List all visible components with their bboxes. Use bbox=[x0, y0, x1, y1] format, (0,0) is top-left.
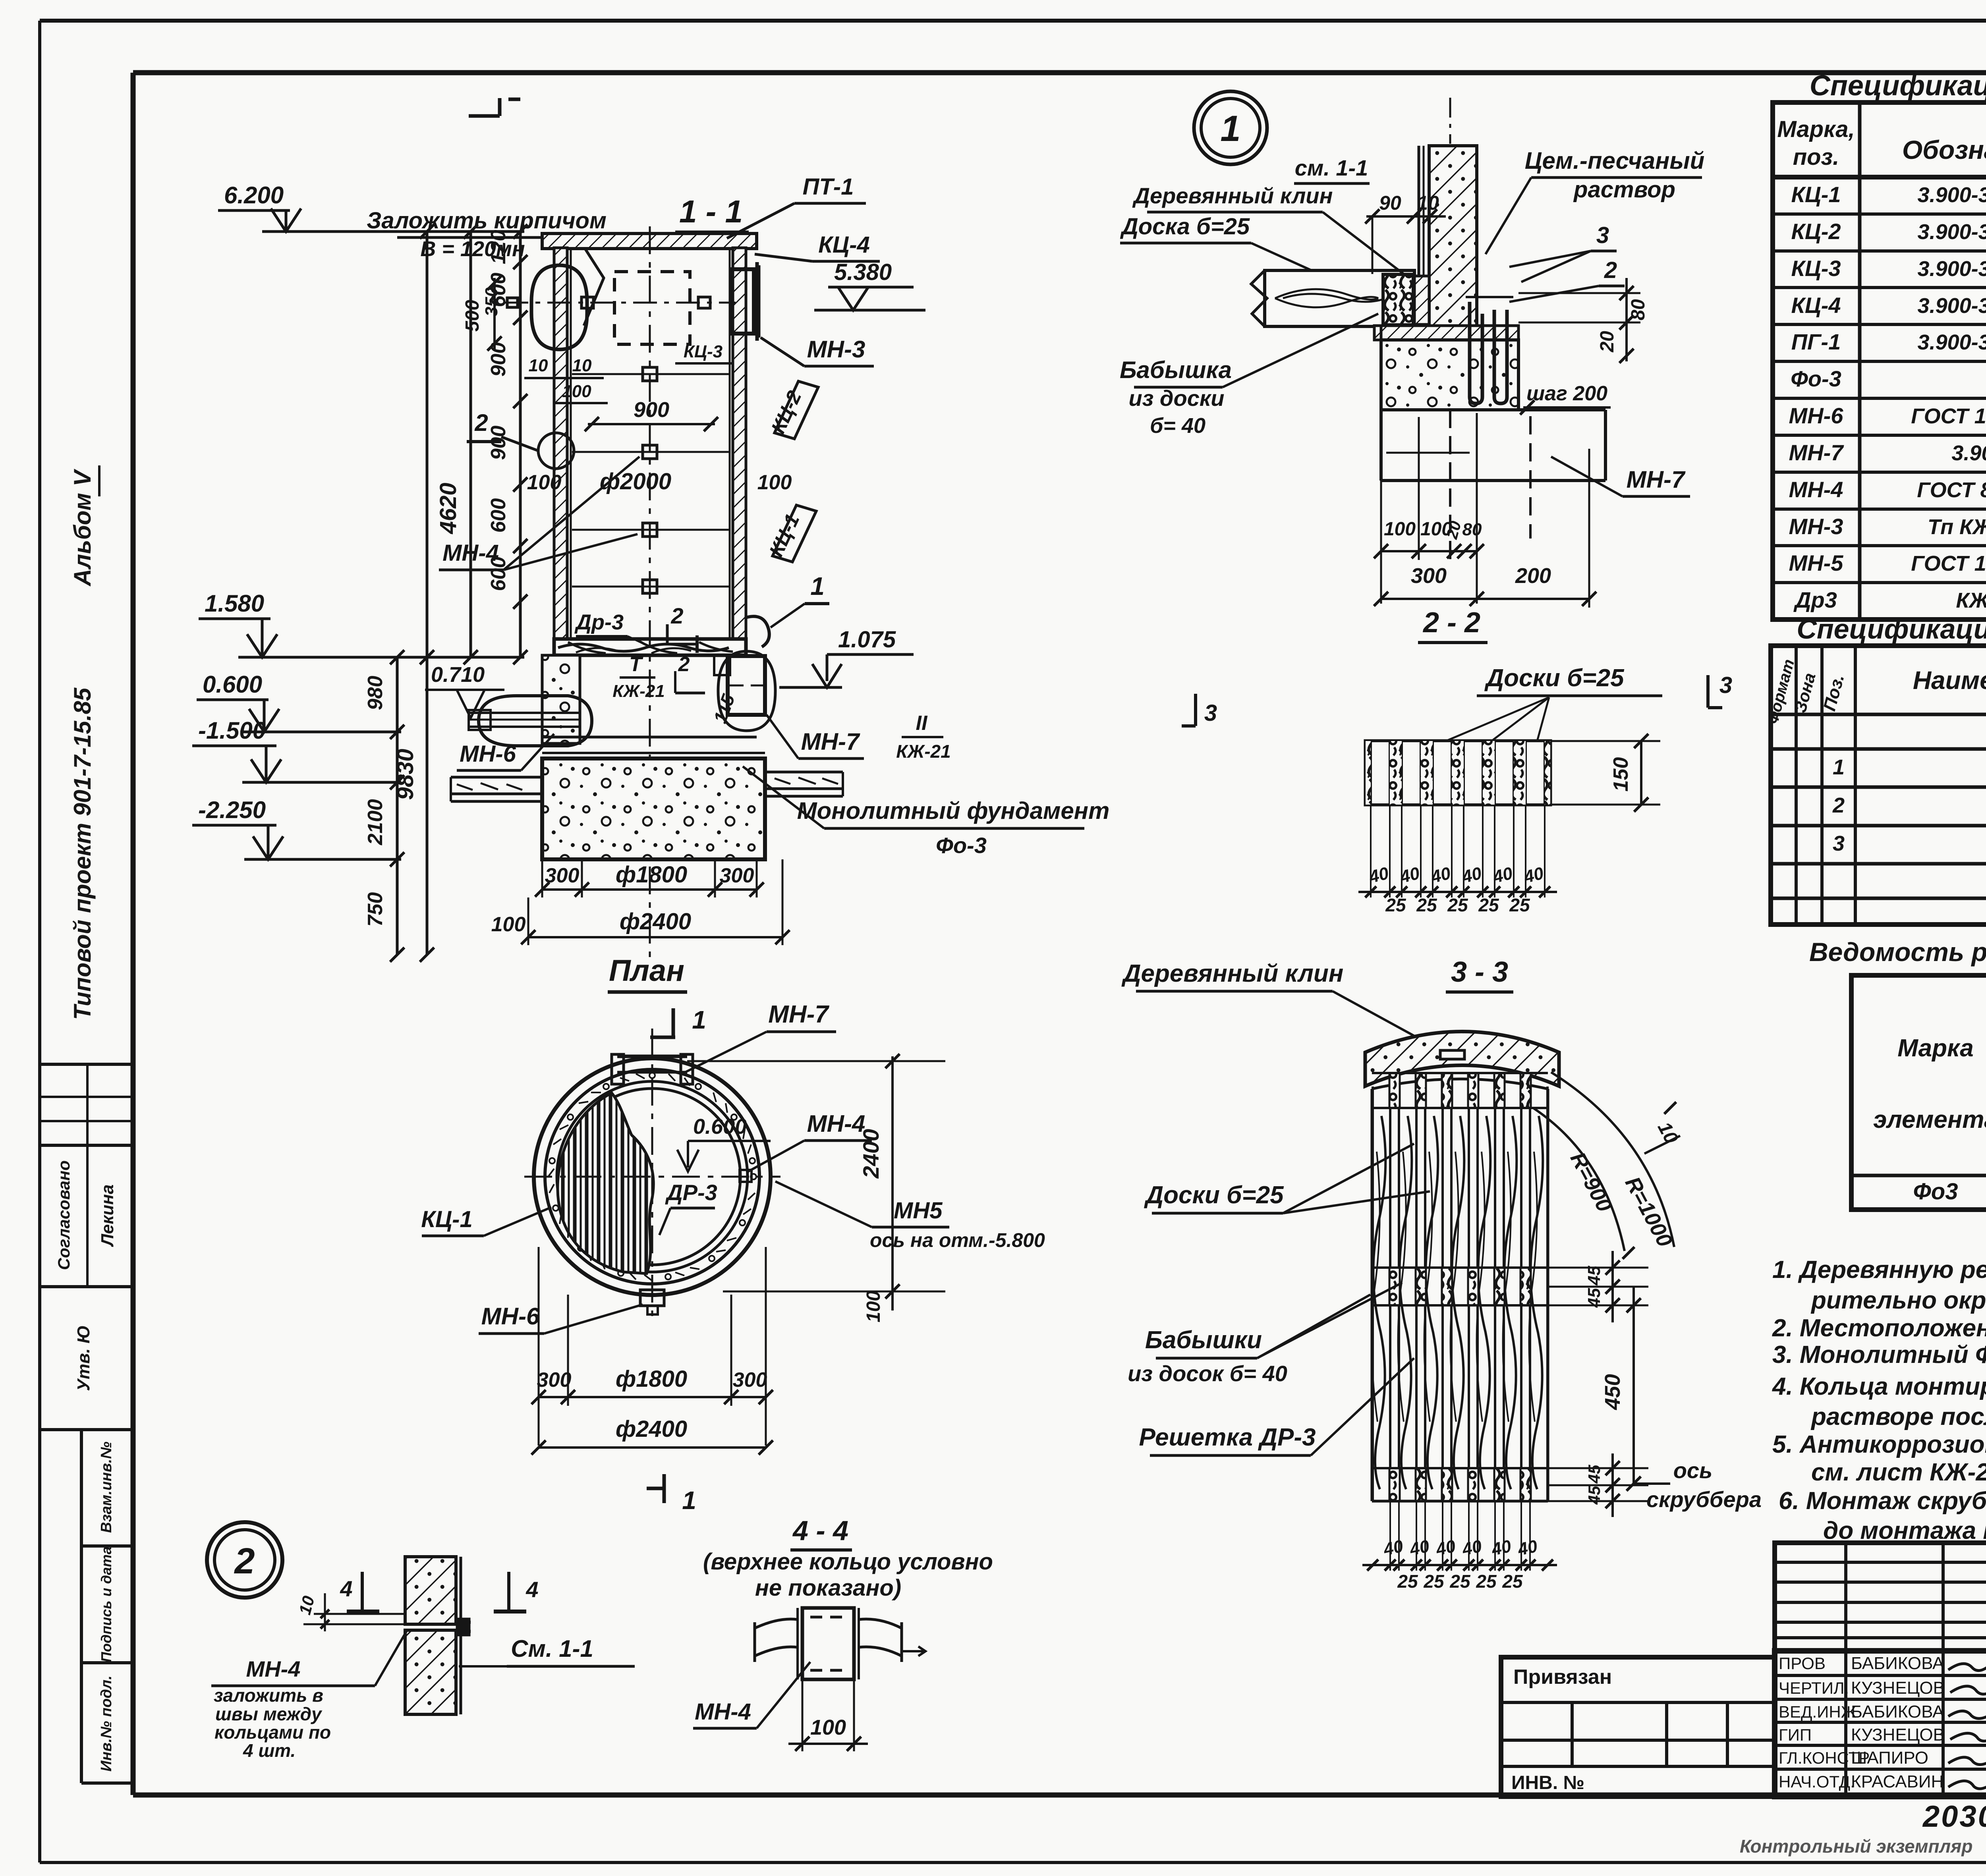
svg-text:40: 40 bbox=[1434, 1536, 1458, 1559]
svg-text:45: 45 bbox=[1584, 1266, 1604, 1285]
svg-text:3.900-3 вып.7: 3.900-3 вып.7 bbox=[1918, 257, 1986, 281]
svg-text:1: 1 bbox=[692, 1006, 706, 1034]
svg-text:80: 80 bbox=[1462, 520, 1482, 539]
label МН-3 right bbox=[761, 336, 874, 366]
svg-text:II: II bbox=[916, 712, 928, 735]
svg-text:2: 2 bbox=[234, 1541, 255, 1581]
svg-text:МН-4: МН-4 bbox=[442, 540, 499, 566]
detail circle 2 bbox=[207, 1522, 282, 1598]
svg-text:150: 150 bbox=[1609, 757, 1632, 792]
svg-text:1: 1 bbox=[810, 572, 825, 600]
svg-text:Фо3: Фо3 bbox=[1913, 1179, 1958, 1204]
lower chamber walls bbox=[542, 655, 757, 743]
svg-text:5.380: 5.380 bbox=[834, 259, 892, 285]
elevation 1.580 bbox=[199, 590, 524, 657]
wooden grate Др-3 band in section bbox=[554, 639, 746, 655]
dashed future-equipment outline bbox=[614, 272, 690, 344]
label Т/КЖ-21 inside chamber bbox=[612, 653, 705, 701]
svg-text:не показано): не показано) bbox=[755, 1575, 901, 1601]
svg-text:80: 80 bbox=[1628, 299, 1649, 320]
monolithic foundation block bbox=[542, 753, 765, 859]
svg-text:поз.: поз. bbox=[1793, 144, 1839, 170]
svg-text:500: 500 bbox=[462, 300, 483, 332]
label Деревянный клин (3-3) bbox=[1121, 960, 1446, 1053]
svg-text:-1.500: -1.500 bbox=[198, 717, 266, 744]
label Бабышки из досок (3-3) bbox=[1128, 1283, 1402, 1386]
svg-text:100: 100 bbox=[562, 382, 591, 401]
label Деревянный клин (узел 1) bbox=[1132, 183, 1412, 280]
svg-text:Фо-3: Фо-3 bbox=[936, 833, 987, 858]
svg-text:4: 4 bbox=[340, 1576, 352, 1601]
3-3 dims 45 45 bottom bbox=[1548, 1453, 1648, 1517]
general notes list bbox=[1772, 1256, 1986, 1544]
svg-text:КЦ-3: КЦ-3 bbox=[1791, 256, 1841, 281]
dimension chain 980 2100 750 bbox=[364, 650, 404, 962]
label см.1-1 bbox=[1294, 155, 1370, 183]
svg-text:300: 300 bbox=[537, 1368, 572, 1392]
plan grate hatched sector bbox=[558, 1093, 653, 1274]
elevation 6.200 bbox=[218, 182, 524, 232]
svg-text:6. Монтаж скруббера и засыпк: 6. Монтаж скруббера и засыпку колец наса… bbox=[1779, 1487, 1986, 1515]
svg-text:Согласовано: Согласовано bbox=[54, 1160, 73, 1270]
svg-text:КЖ-16: КЖ-16 bbox=[1956, 589, 1986, 612]
svg-text:МН-4: МН-4 bbox=[1789, 477, 1843, 502]
svg-text:Взам.инв.№: Взам.инв.№ bbox=[98, 1442, 115, 1533]
label Др-3 with section mark 2 bbox=[574, 603, 697, 653]
label Заложить кирпичом bbox=[367, 208, 607, 326]
left floor slab bbox=[451, 777, 542, 801]
label ПТ-1 bbox=[727, 174, 866, 238]
svg-text:100: 100 bbox=[1384, 519, 1416, 540]
svg-text:МН-5: МН-5 bbox=[1789, 550, 1844, 575]
svg-text:скруббера: скруббера bbox=[1646, 1487, 1762, 1512]
svg-text:рительно окрашенных эпокси: рительно окрашенных эпоксидной смолой ма… bbox=[1810, 1287, 1986, 1314]
узел 1 клин wedge bbox=[1414, 276, 1429, 324]
svg-text:Наименование: Наименование bbox=[1913, 666, 1986, 695]
svg-text:4620: 4620 bbox=[435, 483, 461, 534]
svg-text:3.900-3 вып.7: 3.900-3 вып.7 bbox=[1918, 220, 1986, 244]
svg-text:КУЗНЕЦОВ: КУЗНЕЦОВ bbox=[1851, 1678, 1945, 1698]
4-4 subtitle bbox=[703, 1549, 993, 1601]
svg-text:25: 25 bbox=[1449, 1571, 1471, 1592]
section 1-1 title bbox=[675, 194, 749, 232]
svg-text:25: 25 bbox=[1478, 895, 1499, 915]
svg-text:ВЕД.ИНЖ: ВЕД.ИНЖ bbox=[1779, 1702, 1857, 1721]
svg-text:1: 1 bbox=[1220, 108, 1240, 149]
svg-text:Обозначение: Обозначение bbox=[1902, 135, 1986, 164]
svg-text:КЦ-1: КЦ-1 bbox=[1791, 182, 1841, 207]
svg-text:25: 25 bbox=[1385, 895, 1406, 915]
svg-text:25: 25 bbox=[1509, 895, 1530, 915]
gland МН-7 in section bbox=[718, 651, 775, 731]
svg-text:40: 40 bbox=[1408, 1536, 1432, 1559]
svg-text:МН-4: МН-4 bbox=[695, 1699, 751, 1725]
svg-text:до монтажа плит покрытия: до монтажа плит покрытия здания. bbox=[1823, 1517, 1986, 1544]
svg-text:ШАПИРО: ШАПИРО bbox=[1851, 1748, 1928, 1768]
svg-text:Ведомость расхода стали на: Ведомость расхода стали на элемент,кГ bbox=[1809, 937, 1986, 967]
svg-text:3.900-3 вып.7: 3.900-3 вып.7 bbox=[1918, 183, 1986, 207]
svg-text:заложить в: заложить в bbox=[214, 1685, 323, 1706]
svg-text:200: 200 bbox=[1515, 564, 1551, 588]
svg-text:300: 300 bbox=[545, 864, 580, 887]
svg-text:900: 900 bbox=[634, 398, 669, 422]
svg-text:ось на отм.-5.800: ось на отм.-5.800 bbox=[870, 1229, 1045, 1251]
elevation 1.075 right bbox=[779, 627, 914, 687]
узел 1 U-gland МН-7 top bbox=[1466, 297, 1513, 403]
section 2-2 title bbox=[1418, 607, 1488, 643]
svg-text:100: 100 bbox=[757, 471, 792, 494]
svg-text:Бабышка: Бабышка bbox=[1120, 357, 1232, 383]
dim 900 interior bbox=[585, 398, 718, 431]
svg-text:ф1800: ф1800 bbox=[616, 1366, 687, 1392]
svg-text:БАБИКОВА: БАБИКОВА bbox=[1851, 1702, 1944, 1722]
svg-text:40: 40 bbox=[1381, 1536, 1405, 1559]
svg-text:Др3: Др3 bbox=[1793, 587, 1837, 612]
svg-text:Др-3: Др-3 bbox=[574, 610, 624, 634]
svg-text:МН-7: МН-7 bbox=[1627, 466, 1686, 493]
svg-text:45: 45 bbox=[1585, 1486, 1603, 1505]
svg-text:10: 10 bbox=[572, 356, 592, 375]
svg-text:ПТ-1: ПТ-1 bbox=[803, 174, 854, 200]
detail 2 label См.1-1 bbox=[459, 1635, 635, 1666]
svg-text:МН-6: МН-6 bbox=[1789, 403, 1844, 428]
svg-text:(верхнее кольцо условно: (верхнее кольцо условно bbox=[703, 1549, 993, 1575]
svg-text:3: 3 bbox=[1204, 700, 1217, 726]
МН-4 fixing marks on axis bbox=[572, 367, 729, 593]
svg-text:2: 2 bbox=[678, 653, 690, 676]
elevation -2.250 bbox=[192, 797, 401, 859]
callout parallelogram КЦ-2 bbox=[767, 381, 818, 439]
right floor slab bbox=[765, 772, 843, 796]
plan centerlines bbox=[524, 1029, 780, 1322]
svg-text:Спецификация элементов скру: Спецификация элементов скруббера bbox=[1810, 70, 1986, 102]
svg-text:2 - 2: 2 - 2 bbox=[1422, 607, 1480, 639]
label Доски б=25 (2-2) bbox=[1446, 664, 1662, 741]
svg-text:25: 25 bbox=[1397, 1571, 1418, 1592]
svg-text:1. Деревянную решетку изгота: 1. Деревянную решетку изготавливать из с… bbox=[1772, 1256, 1986, 1283]
svg-text:0.600: 0.600 bbox=[693, 1115, 747, 1139]
foundation dims 300 ф1800 300 bbox=[535, 859, 764, 897]
svg-text:40: 40 bbox=[1489, 1536, 1513, 1559]
svg-text:4 - 4: 4 - 4 bbox=[792, 1515, 848, 1546]
faint control note bbox=[1740, 1836, 1972, 1857]
svg-text:4: 4 bbox=[525, 1577, 538, 1602]
узел 1 wall bbox=[1419, 98, 1477, 326]
МН-6 pipe oval left bbox=[469, 696, 592, 746]
label 1 ring joint right bbox=[746, 572, 829, 647]
svg-text:КЖ-21: КЖ-21 bbox=[612, 681, 665, 701]
svg-text:3 - 3: 3 - 3 bbox=[1451, 956, 1508, 988]
svg-text:25: 25 bbox=[1447, 895, 1468, 915]
svg-text:300: 300 bbox=[733, 1368, 767, 1392]
svg-text:кольцами по: кольцами по bbox=[214, 1722, 331, 1743]
svg-text:120: 120 bbox=[487, 230, 510, 264]
label МН-6 bbox=[457, 734, 554, 770]
svg-text:2: 2 bbox=[1604, 257, 1617, 283]
svg-text:ЧЕРТИЛ.: ЧЕРТИЛ. bbox=[1779, 1679, 1849, 1697]
label Доска б=25 (узел 1) bbox=[1120, 214, 1311, 270]
2-2 dim 150 bbox=[1550, 734, 1660, 812]
scrubber right wall bbox=[730, 248, 746, 639]
svg-text:Марка,: Марка, bbox=[1777, 116, 1855, 142]
svg-text:см. 1-1: см. 1-1 bbox=[1295, 155, 1368, 180]
label МН-7 below right bbox=[767, 715, 864, 759]
svg-text:Фо-3: Фо-3 bbox=[1791, 366, 1841, 391]
svg-text:Альбом V: Альбом V bbox=[69, 468, 96, 587]
elevation -1.500 bbox=[192, 717, 401, 782]
label КЦ-4 bbox=[755, 232, 880, 261]
svg-text:90: 90 bbox=[1379, 192, 1401, 214]
svg-text:ДР-3: ДР-3 bbox=[665, 1180, 717, 1205]
document number 20307-05 bbox=[1922, 1800, 1986, 1834]
svg-text:10: 10 bbox=[529, 356, 548, 375]
svg-text:МН-6: МН-6 bbox=[460, 741, 516, 767]
3-3 клин wedge small bbox=[1440, 1050, 1464, 1059]
svg-text:ИНВ. №: ИНВ. № bbox=[1511, 1772, 1584, 1793]
узел 1 МН-7 plate band below foundation bbox=[1381, 410, 1605, 538]
svg-text:КЦ-2: КЦ-2 bbox=[1791, 219, 1841, 244]
svg-text:ф1800: ф1800 bbox=[616, 862, 687, 888]
elevation 5.380 bbox=[814, 259, 925, 310]
table: Ведомость расхода стали на элемент bbox=[1809, 937, 1986, 1210]
svg-text:Решетка ДР-3: Решетка ДР-3 bbox=[1139, 1424, 1316, 1451]
svg-text:25: 25 bbox=[1476, 1571, 1497, 1592]
svg-text:2400: 2400 bbox=[858, 1129, 883, 1179]
plan label МН5 ось на отм -5.800 bbox=[775, 1181, 1045, 1251]
section 3 cut marks around 2-2 bbox=[1182, 672, 1732, 726]
detail 2 label МН-4 with note bbox=[211, 1630, 407, 1761]
section 4-4 title bbox=[790, 1515, 852, 1550]
4-4 ring plan segment bbox=[755, 1608, 925, 1679]
plan outer ring circles bbox=[534, 1058, 771, 1295]
table: Спецификация элементов скруббера bbox=[1773, 70, 1986, 620]
svg-text:МН-7: МН-7 bbox=[1789, 440, 1845, 465]
svg-text:40: 40 bbox=[1460, 1536, 1484, 1559]
svg-text:1.580: 1.580 bbox=[205, 590, 264, 617]
3-3 ось скруббера bbox=[1634, 1458, 1762, 1512]
svg-text:Бабышки: Бабышки bbox=[1145, 1326, 1262, 1354]
узел 1 dims 90 10 bbox=[1365, 192, 1446, 274]
svg-text:ГОСТ 10704-76: ГОСТ 10704-76 bbox=[1911, 552, 1986, 575]
plan elevation 0.600 bbox=[677, 1115, 771, 1172]
узел 1 axis below bbox=[1449, 410, 1451, 562]
узел 1 callout 2 bbox=[1509, 257, 1625, 302]
svg-text:Лекина: Лекина bbox=[98, 1185, 117, 1247]
svg-text:из досок б= 40: из досок б= 40 bbox=[1128, 1361, 1287, 1386]
3-3 бабышки rows bbox=[1372, 1073, 1548, 1501]
svg-text:см. лист КЖ-22.: см. лист КЖ-22. bbox=[1811, 1459, 1986, 1486]
svg-text:25: 25 bbox=[1502, 1571, 1523, 1592]
узел 1 dims 300 200 bbox=[1374, 449, 1596, 608]
4-4 dim 100 bbox=[788, 1679, 868, 1751]
elevation 0.710 left bbox=[425, 663, 504, 718]
svg-text:0.600: 0.600 bbox=[203, 671, 262, 698]
svg-text:20307- 05: 20307- 05 bbox=[1922, 1800, 1986, 1834]
svg-text:МН-6: МН-6 bbox=[481, 1303, 540, 1330]
svg-text:См. 1-1: См. 1-1 bbox=[511, 1635, 593, 1662]
svg-text:25: 25 bbox=[1416, 895, 1437, 915]
svg-text:КУЗНЕЦОВ: КУЗНЕЦОВ bbox=[1851, 1725, 1945, 1745]
section 3-3 title bbox=[1446, 956, 1513, 992]
svg-text:100: 100 bbox=[863, 1291, 884, 1322]
svg-text:6.200: 6.200 bbox=[224, 182, 284, 208]
svg-text:100: 100 bbox=[491, 913, 526, 936]
svg-text:40: 40 bbox=[1516, 1536, 1540, 1559]
4-4 label МН-4 bbox=[693, 1662, 810, 1728]
title block (штамп) bbox=[1501, 1543, 1986, 1797]
svg-text:Инв.№ подл.: Инв.№ подл. bbox=[98, 1675, 115, 1772]
label Монолитный фундамент Фо-3 bbox=[743, 766, 1109, 858]
svg-text:2: 2 bbox=[474, 409, 488, 436]
svg-text:750: 750 bbox=[364, 892, 387, 927]
table: Спецификация монолитного фундамента Фо3 bbox=[1764, 614, 1986, 924]
spec table 1 data rows bbox=[1789, 176, 1986, 616]
svg-text:20: 20 bbox=[1597, 331, 1618, 353]
svg-text:3.901-5: 3.901-5 bbox=[1951, 441, 1986, 465]
3-3 radius leaders R=900 R=1000 bbox=[1533, 1072, 1682, 1259]
svg-text:Т: Т bbox=[629, 653, 643, 676]
svg-text:МН-4: МН-4 bbox=[807, 1110, 865, 1137]
svg-text:ГОСТ 10704-76: ГОСТ 10704-76 bbox=[1911, 404, 1986, 428]
detail 2 dim 10 bbox=[295, 1593, 407, 1631]
svg-text:2. Местоположение скруббера: 2. Местоположение скруббера в плане см. … bbox=[1772, 1314, 1986, 1342]
svg-text:МН5: МН5 bbox=[894, 1198, 943, 1224]
svg-text:300: 300 bbox=[720, 864, 754, 887]
svg-text:45: 45 bbox=[1585, 1465, 1603, 1484]
svg-text:КЦ-4: КЦ-4 bbox=[1791, 293, 1841, 318]
svg-text:б= 40: б= 40 bbox=[1150, 414, 1206, 438]
svg-text:Заложить кирпичом: Заложить кирпичом bbox=[367, 208, 607, 234]
svg-text:КЦ-3: КЦ-3 bbox=[684, 342, 723, 361]
plan label МН-7 bbox=[685, 1001, 836, 1072]
plan label МН-6 label bbox=[479, 1303, 643, 1334]
svg-text:4 шт.: 4 шт. bbox=[243, 1740, 296, 1761]
svg-text:Спецификация монолитного ф: Спецификация монолитного фундамента Фо3 bbox=[1797, 614, 1986, 645]
label II/КЖ-21 right bbox=[896, 712, 950, 762]
foundation dim ф2400 and 100 bbox=[491, 859, 790, 945]
label МН-7 (узел 1) bbox=[1551, 457, 1690, 496]
svg-text:Доски б=25: Доски б=25 bbox=[1484, 664, 1625, 692]
svg-text:980: 980 bbox=[364, 676, 387, 710]
svg-text:4. Кольца монтировать на све: 4. Кольца монтировать на свежеуложенном … bbox=[1772, 1373, 1986, 1400]
svg-text:КЖ-21: КЖ-21 bbox=[896, 741, 950, 762]
svg-text:-2.250: -2.250 bbox=[198, 797, 266, 823]
svg-text:2: 2 bbox=[1832, 793, 1845, 817]
plan label КЦ-1 bbox=[421, 1206, 551, 1236]
svg-text:элемента: элемента bbox=[1873, 1106, 1986, 1133]
2-2 board band bbox=[1366, 741, 1550, 805]
callout parallelogram КЦ-1 lower bbox=[765, 505, 816, 562]
2-2 extension lines and dims 40/25 bbox=[1358, 805, 1557, 915]
svg-text:Типовой проект 901-7-15.85: Типовой проект 901-7-15.85 bbox=[69, 687, 96, 1020]
label Доски б=25 (3-3) bbox=[1144, 1144, 1430, 1213]
plan section cut 1 top bbox=[650, 1006, 706, 1037]
svg-text:НАЧ.ОТД.: НАЧ.ОТД. bbox=[1779, 1772, 1855, 1791]
svg-text:1.075: 1.075 bbox=[838, 627, 896, 652]
svg-text:Утв. Ю: Утв. Ю bbox=[74, 1325, 93, 1391]
svg-text:0.710: 0.710 bbox=[431, 663, 485, 687]
left margin stamp column bbox=[40, 465, 133, 1783]
svg-text:БАБИКОВА: БАБИКОВА bbox=[1851, 1654, 1944, 1673]
label КЦ-3 small bbox=[675, 342, 733, 363]
svg-text:МН-7: МН-7 bbox=[801, 728, 860, 755]
svg-text:МН-4: МН-4 bbox=[246, 1656, 301, 1681]
svg-text:ф2400: ф2400 bbox=[616, 1416, 687, 1442]
section circle 2 on left wall bbox=[467, 409, 574, 469]
nozzle squares bbox=[507, 297, 710, 308]
svg-text:Доски б=25: Доски б=25 bbox=[1144, 1181, 1284, 1209]
svg-text:Деревянный клин: Деревянный клин bbox=[1132, 183, 1333, 208]
svg-text:Деревянный клин: Деревянный клин bbox=[1121, 960, 1344, 987]
svg-text:100: 100 bbox=[810, 1716, 846, 1739]
svg-text:3: 3 bbox=[1596, 222, 1609, 248]
узел 1 dim 80 20 right bbox=[1518, 278, 1649, 363]
svg-text:раствор: раствор bbox=[1573, 177, 1675, 203]
svg-text:Монолитный фундамент: Монолитный фундамент bbox=[797, 797, 1110, 824]
dimension chain 4620 bbox=[435, 224, 478, 664]
plan МН-7 plate top bbox=[612, 1054, 693, 1084]
узел 1 бабышка block bbox=[1383, 274, 1413, 325]
svg-text:Тп КЖИ-МН: Тп КЖИ-МН bbox=[1928, 515, 1986, 539]
gland oval top left bbox=[531, 265, 587, 349]
label Решетка ДР-3 bbox=[1139, 1358, 1414, 1455]
svg-text:ГИП: ГИП bbox=[1779, 1725, 1812, 1744]
svg-text:2100: 2100 bbox=[364, 799, 387, 845]
plan title bbox=[608, 954, 687, 992]
svg-text:Цем.-песчаный: Цем.-песчаный bbox=[1525, 147, 1704, 174]
3-3 dims 45 45 middle bbox=[1548, 1251, 1648, 1322]
svg-text:300: 300 bbox=[1411, 564, 1447, 588]
detail 2 wall rings bbox=[405, 1557, 471, 1714]
fine dimension chain 120-600-900-900-600-600 bbox=[487, 224, 527, 664]
plan vertical dim 2400 and 100 bbox=[687, 1054, 945, 1322]
svg-text:КЦ-1: КЦ-1 bbox=[421, 1206, 473, 1232]
section cut mark 1 top of 1-1 bbox=[469, 98, 520, 116]
label Цем.-песчаный раствор bbox=[1486, 147, 1704, 254]
plan label ДР-3 bbox=[659, 1180, 717, 1235]
svg-text:План: План bbox=[609, 954, 684, 988]
label 115 rotated bbox=[709, 691, 739, 726]
label Бабышка из доски bbox=[1120, 314, 1378, 438]
plan dim ф2400 bbox=[531, 1416, 773, 1455]
svg-text:МН-3: МН-3 bbox=[1789, 514, 1843, 539]
svg-text:ГОСТ 8239-72: ГОСТ 8239-72 bbox=[1917, 478, 1986, 502]
svg-text:3.900-3 вып.7: 3.900-3 вып.7 bbox=[1918, 294, 1986, 318]
dimension chain 9830 bbox=[392, 224, 434, 962]
3-3 dim 450 bbox=[1601, 1287, 1641, 1491]
elevation 0.600 bbox=[197, 671, 401, 732]
plan ring stipple bbox=[548, 1073, 756, 1281]
svg-text:600: 600 bbox=[487, 498, 510, 533]
svg-text:1: 1 bbox=[682, 1486, 696, 1515]
3-3 bottom extension lines and dims bbox=[1362, 1501, 1557, 1592]
svg-text:КЦ-4: КЦ-4 bbox=[818, 232, 870, 258]
svg-text:Контрольный экземпляр: Контрольный экземпляр bbox=[1740, 1836, 1972, 1857]
svg-text:шаг 200: шаг 200 bbox=[1526, 382, 1607, 405]
vertical center axis of scrubber bbox=[649, 226, 651, 965]
label МН-4 left bbox=[439, 457, 639, 570]
svg-text:1: 1 bbox=[1833, 755, 1845, 779]
svg-text:ПГ-1: ПГ-1 bbox=[1791, 329, 1841, 354]
svg-text:ПРОВ: ПРОВ bbox=[1779, 1654, 1826, 1673]
dim 10 10 100 under gland bbox=[524, 356, 608, 403]
svg-text:ф2400: ф2400 bbox=[620, 909, 691, 934]
3-3 plank field bbox=[1372, 1079, 1548, 1501]
plan bottom dims 300 ф1800 300 bbox=[531, 1247, 773, 1446]
svg-text:450: 450 bbox=[1601, 1374, 1625, 1410]
scrubber left wall bbox=[554, 248, 571, 639]
svg-text:растворе после установки ф: растворе после установки фиксирующих мар… bbox=[1810, 1403, 1986, 1430]
